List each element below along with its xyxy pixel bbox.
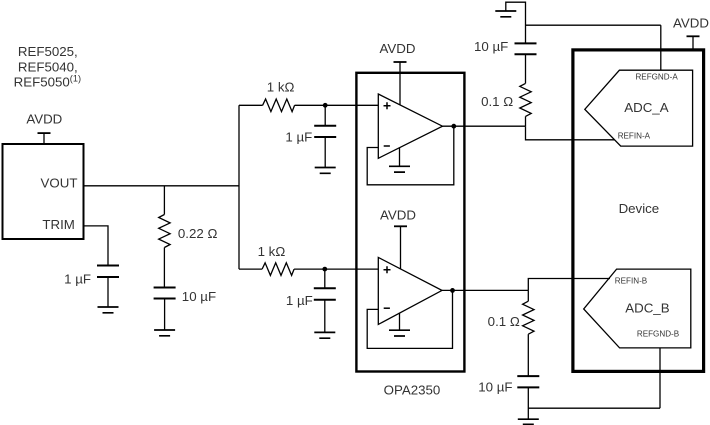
svg-text:AVDD: AVDD	[26, 111, 62, 126]
svg-text:ADC_A: ADC_A	[624, 100, 668, 115]
svg-text:Device: Device	[619, 201, 660, 216]
svg-text:ADC_B: ADC_B	[625, 301, 669, 316]
svg-text:REFIN-A: REFIN-A	[618, 131, 651, 140]
svg-text:REFIN-B: REFIN-B	[615, 276, 647, 285]
svg-text:AVDD: AVDD	[673, 15, 709, 30]
svg-text:1 kΩ: 1 kΩ	[267, 79, 295, 94]
svg-text:1 kΩ: 1 kΩ	[258, 244, 286, 259]
svg-text:REFGND-A: REFGND-A	[635, 72, 678, 81]
svg-text:OPA2350: OPA2350	[384, 382, 441, 397]
svg-text:1 µF: 1 µF	[64, 271, 91, 286]
svg-text:TRIM: TRIM	[42, 217, 75, 232]
svg-text:0.22 Ω: 0.22 Ω	[178, 226, 218, 241]
svg-text:0.1 Ω: 0.1 Ω	[488, 314, 520, 329]
svg-text:10 µF: 10 µF	[478, 379, 512, 394]
svg-text:REF5025,: REF5025,	[18, 44, 78, 59]
svg-text:REF5050(1): REF5050(1)	[14, 74, 81, 90]
svg-text:10 µF: 10 µF	[474, 39, 508, 54]
svg-text:REFGND-B: REFGND-B	[637, 329, 679, 338]
svg-text:10 µF: 10 µF	[182, 289, 216, 304]
svg-text:1 µF: 1 µF	[286, 293, 313, 308]
svg-text:0.1 Ω: 0.1 Ω	[481, 94, 513, 109]
svg-text:1 µF: 1 µF	[285, 129, 312, 144]
svg-text:REF5040,: REF5040,	[18, 60, 78, 75]
svg-text:AVDD: AVDD	[380, 208, 416, 223]
svg-text:AVDD: AVDD	[380, 41, 416, 56]
svg-text:VOUT: VOUT	[41, 176, 78, 191]
